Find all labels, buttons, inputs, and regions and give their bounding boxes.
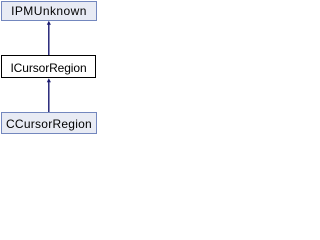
class box ICursorRegion (current class)	[1, 55, 96, 78]
class box CCursorRegion	[1, 112, 97, 134]
inheritance arrow CCursorRegion to ICursorRegion	[0, 0, 99, 136]
class box IPMUnknown	[1, 1, 97, 21]
inheritance arrow ICursorRegion to IPMUnknown	[0, 0, 99, 136]
